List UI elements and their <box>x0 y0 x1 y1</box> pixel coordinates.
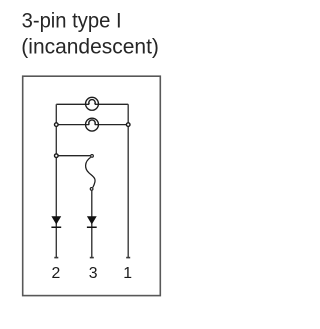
wire: second horizontal (lamp 2) <box>56 124 128 126</box>
svg-text:1: 1 <box>123 265 132 282</box>
lamp L1 (incandescent) <box>86 97 99 110</box>
pin 2 end cap <box>54 257 58 259</box>
svg-text:2: 2 <box>52 265 61 282</box>
wire: right branch vertical (pin 1) <box>127 104 129 257</box>
wire: switch feed horizontal <box>56 155 90 157</box>
pin 3 end cap <box>90 257 94 259</box>
junction node on left branch at lamp2 wire <box>55 123 59 127</box>
relay case outline <box>23 76 161 295</box>
diode D1 (left) <box>51 216 61 228</box>
diode D2 (right) <box>87 216 97 228</box>
lamp L2 (incandescent) <box>86 118 99 131</box>
switch S1 lower terminal <box>90 188 93 191</box>
switch S1 blade (wavy element) <box>86 157 95 187</box>
svg-text:3-pin type I: 3-pin type I <box>22 9 122 33</box>
wire: middle branch vertical (pin 3) <box>91 191 93 258</box>
junction node on left branch at switch wire <box>55 154 59 158</box>
svg-text:3: 3 <box>89 265 98 282</box>
switch S1 upper terminal <box>91 155 94 158</box>
svg-text:(incandescent): (incandescent) <box>21 35 159 59</box>
pin 1 end cap <box>126 257 130 259</box>
junction node on right branch at lamp2 wire <box>126 123 130 127</box>
wire: left branch vertical (pin 2) <box>55 104 57 257</box>
wire: top horizontal (lamp 1 feed) <box>56 103 128 105</box>
